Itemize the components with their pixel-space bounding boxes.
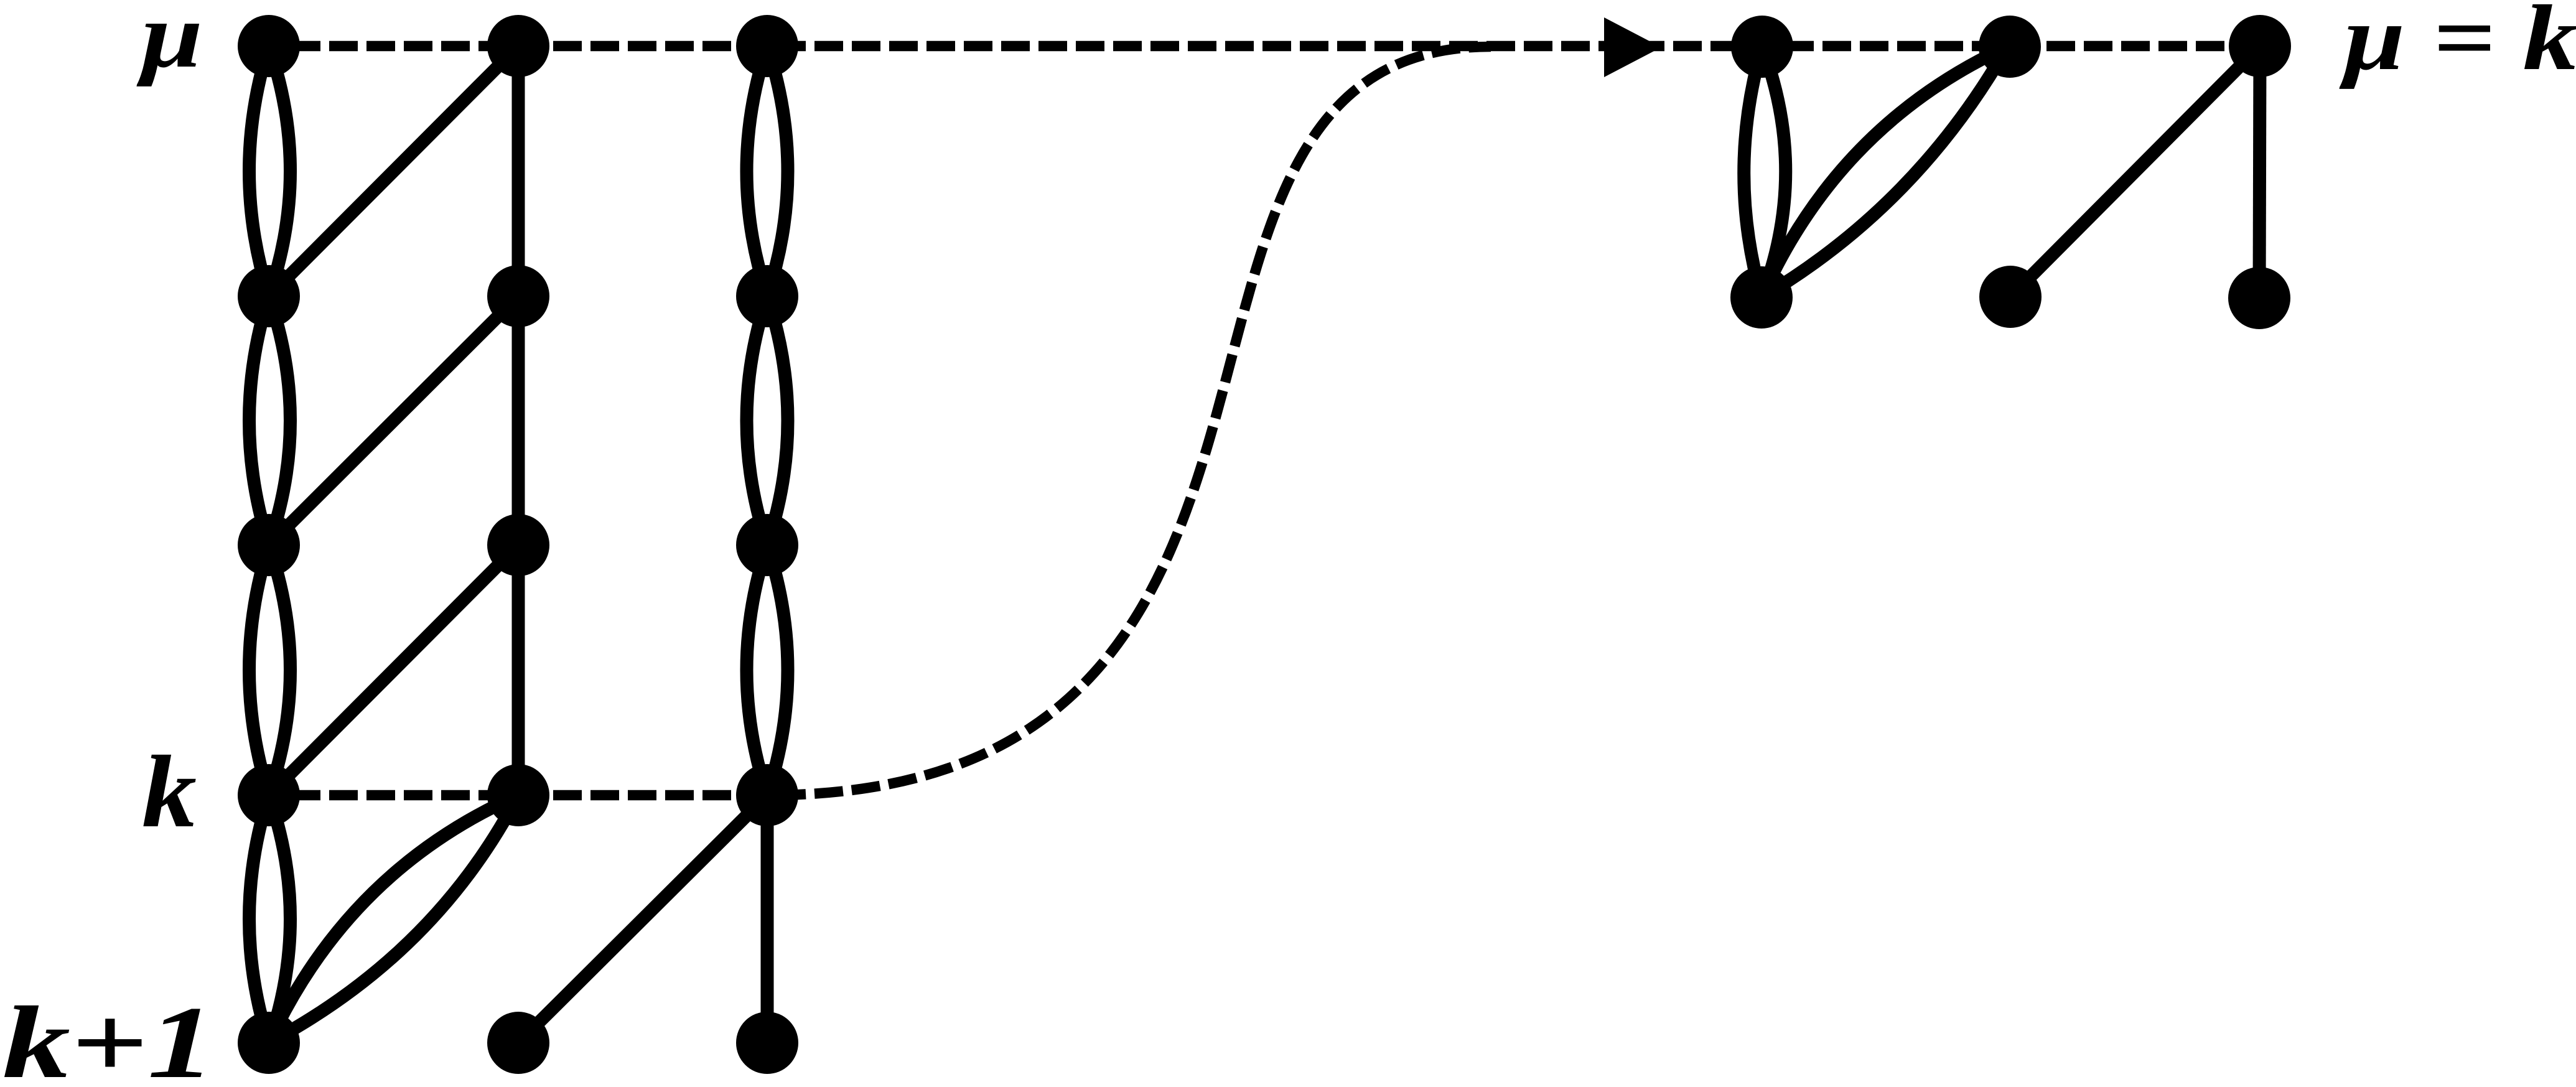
- node c1r2: [238, 265, 300, 327]
- wire: dashed S-curve from k-row to mu-row: [767, 47, 1491, 795]
- svg-text:μ: μ: [136, 0, 203, 87]
- wire: diagonal c1r4-c2r3: [269, 545, 518, 795]
- double edge col1 r1-r2: [250, 46, 291, 296]
- node C right cluster: [2229, 15, 2291, 77]
- wire: col2 vertical edge: [512, 46, 525, 795]
- wire: vertical C-F right cluster: [2259, 46, 2260, 297]
- wire: k-row dashed line: [269, 790, 767, 801]
- svg-text:μ = k: μ = k: [2339, 0, 2576, 90]
- wire: col3 vertical edge bottom: [761, 795, 774, 1043]
- node c1r4: [238, 764, 300, 826]
- svg-text:k+1: k+1: [2, 985, 215, 1087]
- double edge col3 r1-r2: [747, 46, 788, 296]
- double edge col1 r4-r5: [250, 795, 291, 1043]
- double edge col3 r2-r3: [747, 296, 788, 545]
- node E right cluster: [1979, 266, 2042, 328]
- wire: diagonal C-E right cluster: [2010, 46, 2260, 297]
- node A right cluster: [1731, 16, 1793, 78]
- wire: diagonal c1r2-c2r1: [269, 46, 518, 296]
- double edge col1 r2-r3: [250, 296, 291, 545]
- node c3r1: [736, 15, 798, 77]
- node c3r4: [736, 764, 798, 826]
- node c1r3: [238, 514, 300, 576]
- double edge col3 r3-r4: [747, 545, 788, 795]
- double edge c1r5-c2r4 diagonal lens: [269, 795, 518, 1043]
- wire: top dashed line mu-row: [269, 41, 2260, 52]
- node c3r5: [736, 1012, 798, 1074]
- double edge col1 r3-r4: [250, 545, 291, 795]
- node F right cluster: [2228, 267, 2290, 329]
- node c2r3: [487, 514, 549, 576]
- double edge B-D right cluster: [1762, 47, 2007, 297]
- node c1r5: [238, 1012, 300, 1074]
- node c2r4: [487, 764, 549, 826]
- double edge A-D right cluster: [1744, 47, 1786, 297]
- node c1r1: [238, 15, 300, 77]
- wire: diagonal c2r5-c3r4: [518, 795, 767, 1043]
- node c2r1: [487, 15, 549, 77]
- arrowhead on dashed line: [1604, 17, 1661, 77]
- node c2r5: [487, 1012, 549, 1074]
- wire: diagonal c1r3-c2r2: [269, 296, 518, 545]
- node c2r2: [487, 265, 549, 327]
- node B right cluster: [1979, 16, 2041, 78]
- node D right cluster: [1730, 266, 1793, 329]
- node c3r2: [736, 265, 798, 327]
- node c3r3: [736, 514, 798, 576]
- svg-text:k: k: [142, 734, 197, 849]
